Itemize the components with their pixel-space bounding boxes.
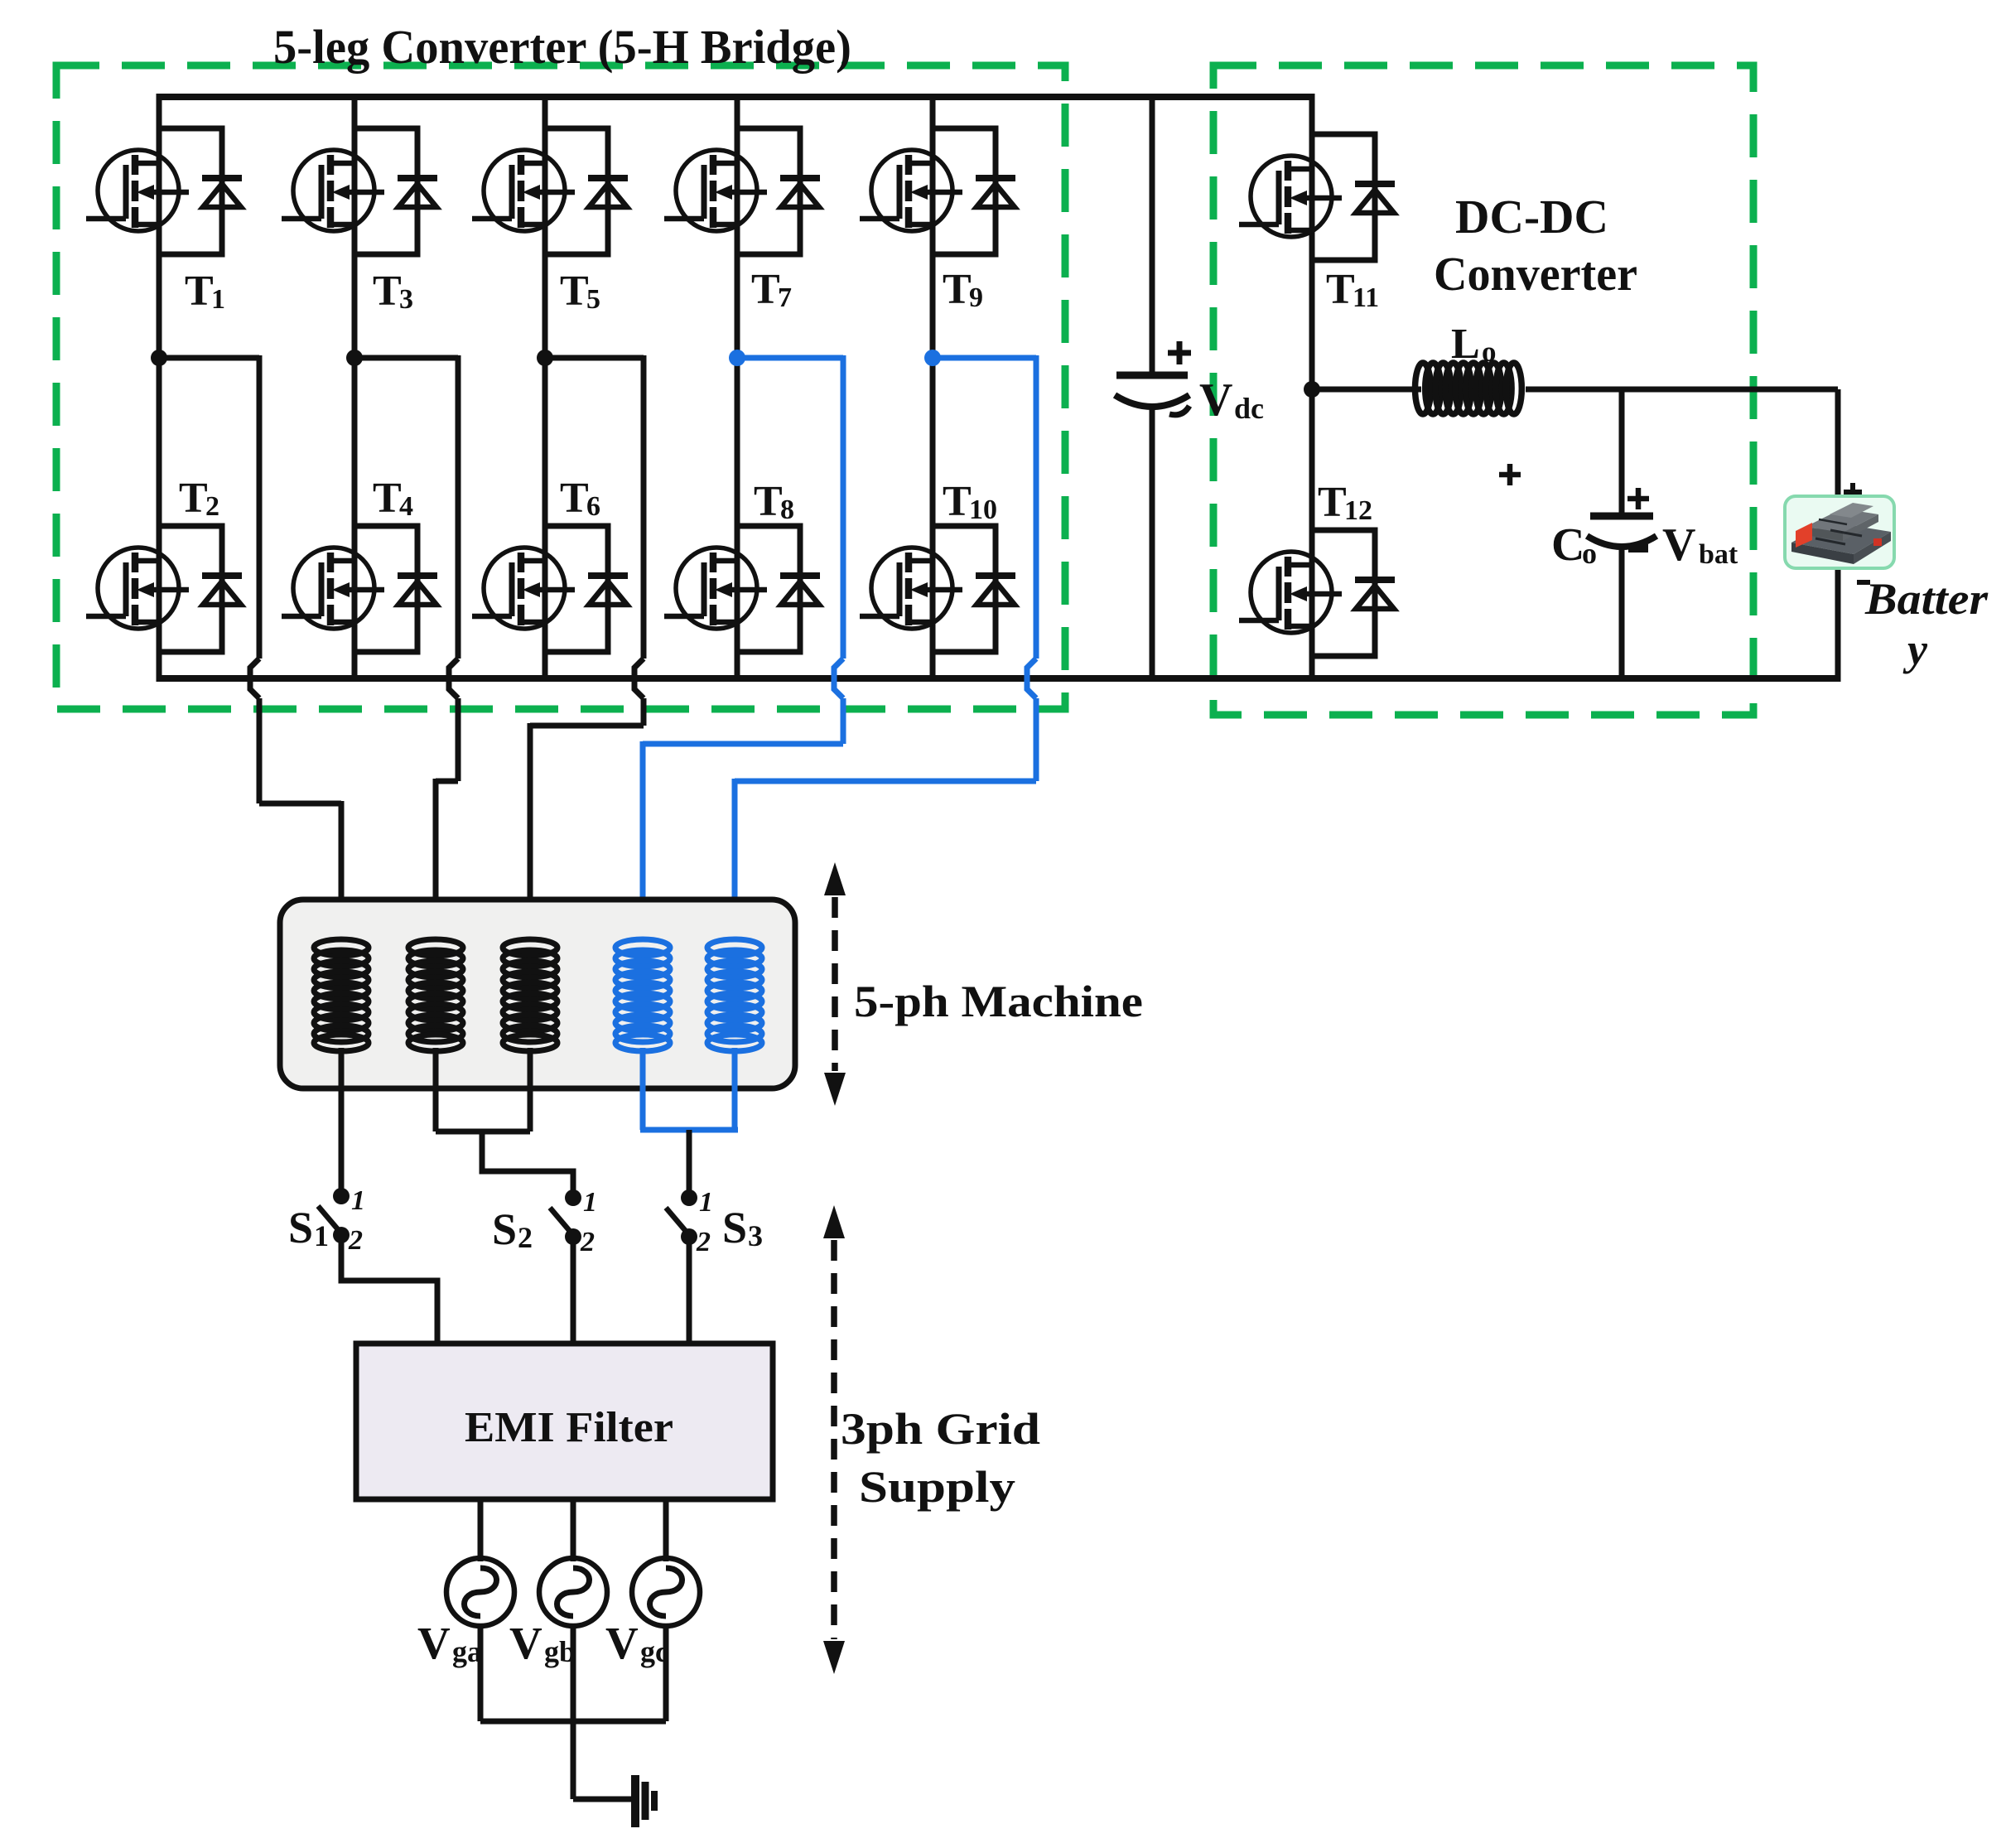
wire: phase c hop over bottom rail (634, 659, 644, 698)
wire: horizontal lead to ground (573, 1797, 632, 1802)
switch S1 (333, 1188, 350, 1204)
diode of T12 (1355, 580, 1395, 609)
wire: phase e winding lower stub (blue) (732, 1048, 738, 1130)
svg-text:T: T (179, 475, 208, 522)
svg-text:S: S (722, 1203, 747, 1252)
wire: leg 5 vertical (drain-source line) (930, 94, 936, 682)
diode of T2 (202, 576, 242, 605)
transistor T6 (bottom MOSFET) (472, 548, 575, 629)
svg-text:11: 11 (1353, 282, 1379, 313)
wire: DC-DC leg vertical (T11/T12) (1309, 94, 1315, 682)
wire: phase b winding lower stub (433, 1048, 439, 1131)
wire: Co capacitor top lead (1619, 387, 1625, 516)
node: T11/T12 midpoint junction (1304, 381, 1320, 398)
transistor T4 (bottom MOSFET) (282, 548, 384, 629)
svg-text:2: 2 (696, 1227, 711, 1257)
wire: Co capacitor bottom lead (1619, 547, 1625, 678)
wire: negative DC bus (bottom rail) (159, 675, 1838, 682)
svg-text:bat: bat (1699, 539, 1738, 570)
minus sign of Co (1628, 544, 1648, 552)
transistor T12 (bottom MOSFET of DC-DC) (1239, 552, 1342, 633)
transistor T9 (top MOSFET) (860, 150, 962, 231)
svg-text:9: 9 (969, 282, 983, 313)
body-diode branch of T3 (354, 128, 417, 254)
body-diode branch of T8 (737, 526, 800, 652)
transistor T7 (top MOSFET) (664, 150, 767, 231)
plus sign (output polarity) (1499, 464, 1521, 485)
svg-text:1: 1 (699, 1187, 713, 1218)
winding: machine phase b coil (408, 939, 463, 1051)
svg-text:dc: dc (1234, 392, 1264, 425)
wire: Vgc return drop (663, 1626, 669, 1721)
svg-text:1: 1 (314, 1219, 329, 1252)
wire: phase c vertical drop upper (641, 355, 647, 659)
body-diode branch of T9 (933, 128, 996, 254)
capacitor Co curved plate (1587, 536, 1656, 547)
wire: Vgb drop to ground (571, 1626, 576, 1799)
wire: neutral join of sources (480, 1719, 666, 1725)
capacitor Vdc curved plate (1115, 395, 1189, 407)
wire: Vdc capacitor bottom lead (1150, 408, 1155, 678)
svg-text:4: 4 (399, 491, 413, 522)
wire: leg 1 vertical (drain-source line) (157, 94, 162, 682)
body-diode branch of T4 (354, 526, 417, 652)
wire: phase a vertical drop upper (257, 355, 263, 659)
wire: phase d drop into machine winding (640, 741, 646, 948)
transistor T3 (top MOSFET) (282, 150, 384, 231)
svg-text:L: L (1451, 321, 1480, 368)
svg-text:T: T (373, 268, 402, 315)
wire: EMI filter to grid source Vga (478, 1499, 484, 1561)
svg-text:Supply: Supply (859, 1462, 1015, 1512)
winding: machine phase a coil (314, 939, 369, 1051)
wire: joined b-c drop (482, 1129, 573, 1193)
diode of T3 (398, 178, 437, 207)
svg-text:Converter: Converter (1434, 247, 1637, 301)
wire: S2 to EMI filter (571, 1237, 576, 1347)
wire: phase a hop over bottom rail (250, 659, 259, 698)
wire: phase e vertical drop upper (1034, 355, 1039, 659)
arrow: 3ph Grid Supply extent (823, 1205, 845, 1238)
svg-text:T: T (1326, 266, 1355, 313)
dashed boundary box: DC-DC Converter (1213, 65, 1753, 715)
diode of T1 (202, 178, 242, 207)
svg-text:5-ph Machine: 5-ph Machine (854, 977, 1143, 1026)
body-diode branch of T10 (933, 526, 996, 652)
plus sign of Vdc (1168, 341, 1191, 364)
transistor T10 (bottom MOSFET) (860, 548, 962, 629)
transistor T2 (bottom MOSFET) (86, 548, 189, 629)
wire: phase d hop over bottom rail (834, 659, 843, 698)
wire: phase b tap horizontal (354, 355, 458, 361)
wire: phase a horizontal jog (259, 801, 341, 807)
svg-text:1: 1 (211, 284, 225, 315)
node: phase d midpoint junction of leg 4 (729, 350, 745, 366)
svg-text:1: 1 (351, 1185, 365, 1216)
wire: EMI filter to grid source Vgb (571, 1499, 576, 1561)
arrow: 5-ph Machine extent (824, 862, 846, 895)
wire: battery positive lead (1835, 389, 1841, 500)
svg-text:3ph Grid: 3ph Grid (841, 1404, 1040, 1454)
svg-text:Batter: Batter (1864, 574, 1989, 624)
svg-text:T: T (373, 475, 402, 522)
wire: phase d vertical drop upper (841, 355, 846, 659)
svg-text:DC-DC: DC-DC (1455, 190, 1608, 244)
svg-text:2: 2 (580, 1227, 595, 1257)
wire: join of phase d and e windings (blue) (640, 1127, 738, 1133)
svg-text:o: o (1482, 335, 1497, 368)
switch S2 (565, 1189, 581, 1206)
wire: phase c winding lower stub (528, 1048, 533, 1131)
svg-text:S: S (288, 1203, 313, 1252)
wire: leg 4 vertical (drain-source line) (735, 94, 740, 682)
svg-text:5: 5 (586, 284, 600, 315)
minus sign at battery (1857, 580, 1870, 585)
svg-text:V: V (509, 1618, 542, 1668)
svg-text:T: T (751, 266, 780, 313)
wire: S1 to EMI filter (341, 1235, 437, 1347)
svg-text:C: C (1551, 519, 1584, 571)
body-diode branch of T12 (1312, 530, 1375, 656)
wire: phase d tap horizontal (737, 355, 843, 361)
wire: phase e tap horizontal (933, 355, 1036, 361)
svg-text:T: T (943, 478, 972, 525)
diode of T4 (398, 576, 437, 605)
AC source Vgc (632, 1558, 700, 1626)
plus sign at battery (1844, 483, 1862, 501)
AC source Vga (446, 1558, 514, 1626)
svg-text:V: V (1199, 374, 1232, 426)
wire: Vga return drop (478, 1626, 484, 1721)
node: phase b midpoint junction of leg 2 (346, 350, 363, 366)
svg-text:2: 2 (348, 1225, 363, 1256)
svg-text:EMI Filter: EMI Filter (465, 1404, 673, 1451)
svg-text:T: T (185, 268, 214, 315)
node: phase c midpoint junction of leg 3 (537, 350, 553, 366)
wire: phase d vertical drop lower (841, 698, 846, 744)
wire: joined d-e drop to switch S3 (687, 1130, 692, 1193)
svg-text:V: V (605, 1618, 639, 1668)
winding: machine phase e coil (707, 939, 762, 1051)
wire: phase b horizontal jog (436, 779, 458, 784)
winding: machine phase c coil (503, 939, 557, 1051)
wire: phase d winding lower stub (blue) (640, 1048, 646, 1130)
wire: positive DC bus (top rail) (159, 94, 1312, 100)
body-diode branch of T6 (545, 526, 608, 652)
wire: phase e hop over bottom rail (1027, 659, 1036, 698)
inductor Lo (1415, 363, 1522, 414)
wire: phase c drop into machine winding (528, 723, 533, 948)
node: phase a midpoint junction of leg 1 (151, 350, 167, 366)
5-phase machine body (stator box) (280, 900, 795, 1088)
wire: phase a winding to switch S1 (339, 1048, 345, 1193)
diode of T11 (1355, 184, 1395, 213)
AC source Vgb (539, 1558, 607, 1626)
svg-text:y: y (1902, 625, 1928, 674)
svg-text:T: T (560, 268, 589, 315)
plus sign of Co (1627, 488, 1649, 509)
wire: battery negative lead to bottom rail (1835, 563, 1841, 682)
wire: phase b hop over bottom rail (449, 659, 458, 698)
svg-text:3: 3 (748, 1219, 763, 1252)
wire: phase e drop into machine winding (732, 779, 738, 948)
wire: EMI filter to grid source Vgc (663, 1499, 669, 1561)
wire: Vdc capacitor top lead (1150, 97, 1155, 375)
svg-text:T: T (943, 266, 972, 313)
svg-text:S: S (492, 1204, 517, 1254)
diode of T7 (780, 178, 820, 207)
svg-text:2: 2 (205, 491, 219, 522)
capacitor Vdc top plate (1116, 372, 1188, 379)
capacitor Co top plate (1590, 513, 1653, 520)
wire: phase e vertical drop lower (1034, 698, 1039, 781)
body-diode branch of T7 (737, 128, 800, 254)
wire: phase a vertical drop lower (257, 698, 263, 803)
wire: phase c vertical drop lower (641, 698, 647, 726)
wire: phase b vertical drop lower (456, 698, 461, 781)
svg-text:3: 3 (399, 284, 413, 315)
transistor T1 (top MOSFET) (86, 150, 189, 231)
ground (631, 1775, 639, 1827)
svg-text:2: 2 (518, 1221, 533, 1254)
wire: phase b drop into machine winding (433, 779, 439, 948)
wire: phase a drop into machine winding (339, 801, 345, 948)
battery icon (1785, 496, 1894, 568)
svg-text:o: o (1582, 537, 1597, 570)
svg-text:5-leg Converter (5-H Bridge): 5-leg Converter (5-H Bridge) (273, 20, 851, 74)
transistor T5 (top MOSFET) (472, 150, 575, 231)
transistor T8 (bottom MOSFET) (664, 548, 767, 629)
svg-text:7: 7 (778, 282, 792, 313)
svg-text:6: 6 (586, 491, 600, 522)
svg-text:T: T (754, 478, 783, 525)
dashed boundary box: 5-leg Converter (5-H Bridge) (56, 65, 1065, 709)
svg-text:1: 1 (583, 1187, 597, 1218)
svg-text:T: T (1318, 479, 1347, 526)
diode of T9 (976, 178, 1015, 207)
svg-text:V: V (417, 1618, 451, 1668)
capacitor Vdc minus curl (1169, 406, 1189, 415)
EMI Filter box (356, 1344, 773, 1499)
diode of T6 (588, 576, 628, 605)
wire: phase e horizontal jog (735, 779, 1036, 784)
wire: junction to inductor Lo (1312, 387, 1421, 393)
svg-text:T: T (560, 475, 589, 522)
svg-text:10: 10 (969, 495, 997, 525)
wire: S3 to EMI filter (687, 1237, 692, 1347)
wire: phase c horizontal jog (530, 723, 644, 729)
body-diode branch of T2 (159, 526, 222, 652)
wire: leg 2 vertical (drain-source line) (352, 94, 358, 682)
diode of T5 (588, 178, 628, 207)
body-diode branch of T11 (1312, 134, 1375, 260)
svg-text:12: 12 (1344, 495, 1372, 526)
winding: machine phase d coil (615, 939, 670, 1051)
wire: join of phase b and c windings (436, 1129, 530, 1135)
wire: phase b vertical drop upper (456, 355, 461, 659)
svg-text:V: V (1662, 519, 1695, 571)
diode of T8 (780, 576, 820, 605)
diode of T10 (976, 576, 1015, 605)
wire: inductor Lo to battery node (1526, 387, 1838, 393)
switch S3 (681, 1189, 697, 1206)
wire: phase c tap horizontal (545, 355, 644, 361)
wire: phase d horizontal jog (643, 741, 843, 747)
body-diode branch of T1 (159, 128, 222, 254)
node: phase e midpoint junction of leg 5 (924, 350, 941, 366)
body-diode branch of T5 (545, 128, 608, 254)
wire: leg 3 vertical (drain-source line) (542, 94, 548, 682)
svg-text:8: 8 (780, 495, 794, 525)
wire: phase a tap horizontal (159, 355, 259, 361)
transistor T11 (top MOSFET of DC-DC) (1239, 156, 1342, 237)
